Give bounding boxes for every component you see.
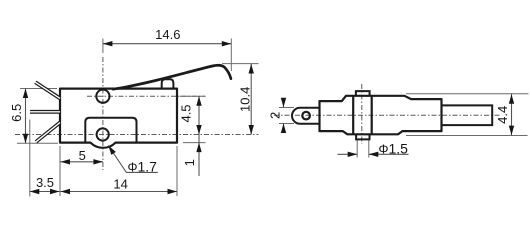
- extension lines for 4.4: [406, 93, 529, 95]
- dimension 6.5: [25, 89, 27, 144]
- extension lines for 2: [279, 107, 294, 109]
- centerline vertical through plunger x=361.8: [361, 84, 363, 144]
- svg-text:Φ1.7: Φ1.7: [128, 158, 158, 174]
- plunger top cap: [356, 91, 370, 96]
- svg-text:4.4: 4.4: [495, 106, 510, 124]
- svg-text:6.5: 6.5: [9, 104, 24, 122]
- dimension 2: [283, 99, 285, 108]
- actuator bar right: [442, 105, 493, 125]
- side terminal pin with hole: [292, 108, 320, 124]
- terminal pin middle (horizontal): [30, 110, 60, 114]
- extension line right of top circle center for 4.5: [180, 95, 206, 97]
- extension line right of body bottom for 1: [183, 142, 206, 144]
- terminal pin top (diagonal): [35, 82, 60, 98]
- extension line top pin level for 6.5: [20, 88, 57, 90]
- leader phi 1.7: [108, 146, 158, 173]
- plunger dome on top edge: [162, 79, 174, 88]
- centerline horizontal through top circle y=96.2: [87, 95, 206, 97]
- extension line body right bottom for 14: [176, 146, 178, 196]
- svg-text:2: 2: [268, 112, 283, 119]
- extension line middle pin end for 3.5: [29, 120, 31, 197]
- svg-text:1: 1: [182, 159, 197, 166]
- side body outline: [320, 96, 442, 135]
- mounting hole phi 1.7: [97, 128, 109, 140]
- centerline horizontal right view: [274, 114, 500, 116]
- dimension 3.5: [30, 191, 60, 193]
- svg-text:10.4: 10.4: [238, 87, 253, 112]
- svg-text:5: 5: [79, 148, 86, 163]
- lever arm: [113, 65, 231, 89]
- switch body outline: [60, 89, 177, 148]
- centerline vertical through pivot x=102.9: [102, 57, 104, 170]
- extension line lever top level for 10.4: [222, 63, 259, 65]
- inner rounded cavity: [85, 118, 136, 143]
- svg-text:4.5: 4.5: [178, 104, 193, 122]
- dimension phi 1.5: [338, 153, 358, 155]
- dimension 1 (arrow below pointing up): [196, 143, 201, 153]
- svg-text:14.6: 14.6: [155, 27, 180, 42]
- extension lines for phi 1.5: [356, 140, 358, 158]
- svg-text:Φ1.5: Φ1.5: [379, 141, 409, 157]
- dimension 4.5: [198, 96, 200, 176]
- dimension 5: [61, 161, 103, 163]
- svg-text:14: 14: [113, 176, 127, 191]
- dimension 10.4: [250, 64, 252, 135]
- bottom stem flange: [356, 134, 369, 139]
- pin hole: [302, 112, 310, 120]
- svg-text:3.5: 3.5: [36, 175, 54, 190]
- plunger post lines: [352, 96, 354, 135]
- extension line right of 14.6 at lever tip: [230, 39, 232, 72]
- pivot circle top: [96, 90, 109, 103]
- dimension 14.6: [103, 43, 231, 45]
- terminal pin bottom (diagonal): [36, 123, 60, 142]
- dimension 14: [61, 191, 178, 193]
- extension line body bottom left: [17, 142, 58, 144]
- centerline horizontal through bottom hole y=134.5: [15, 134, 259, 136]
- extension line body left bottom for 3.5 and 14: [59, 146, 61, 196]
- extension line top left of 14.6: [102, 39, 104, 54]
- dimension 4.4: [511, 94, 513, 136]
